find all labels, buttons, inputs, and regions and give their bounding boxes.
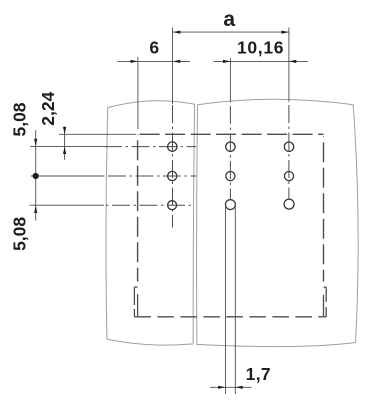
centerline column2 [229,58,231,101]
svg-text:6: 6 [149,38,159,58]
dimension 6: line [117,60,190,62]
notch bottom-left [134,287,137,317]
dimension 10,16: left arrow [223,60,230,63]
centerline column1 [172,28,174,105]
dimension 10,16: right arrow [289,60,296,63]
hole C3 [284,199,294,209]
dimension 1,7: line [210,386,251,388]
arrow down at top edge [63,127,66,134]
arrow up below row3 [34,206,37,213]
dashed body outline left edge [137,134,139,281]
hole C2 [284,172,293,181]
arrow down at row1 [34,139,37,146]
svg-text:5,08: 5,08 [9,102,29,136]
extension line for 6 (left) [137,57,139,129]
hole B2 [226,172,235,181]
hole B1 [226,142,235,151]
dimension 1,7: right arrow [235,386,242,389]
hole A2 [168,171,177,180]
extension line top edge (left) [59,133,136,135]
chain dot at row2 [33,173,39,179]
hole edge extension line left [225,205,227,394]
outline right block [197,99,359,346]
dimension 5,08 top / 5,08 bottom vertical line [35,130,37,220]
outline left block [106,101,195,345]
hole A1 [168,142,177,151]
svg-text:1,7: 1,7 [246,364,271,384]
dimension a: left arrow [173,31,180,34]
centerline column3 [288,28,290,103]
hole A3 [168,201,177,210]
centerline row1 [30,146,104,148]
dimension 6: right arrow [173,60,180,63]
svg-text:2,24: 2,24 [38,91,58,125]
dimension a: right arrow [282,31,289,34]
svg-text:5,08: 5,08 [9,217,29,251]
dimension a: line [173,31,289,33]
dimension 2,24 vertical line [64,127,66,160]
dimension 10,16: line [214,60,309,62]
arrow up at row1 [63,147,66,154]
centerline row2 [31,175,104,177]
dashed body outline right edge [323,136,325,281]
hole C1 [284,142,293,151]
notch bottom-right [324,287,327,317]
centerline row3 [30,204,104,206]
svg-text:a: a [223,8,235,31]
dashed body outline bottom edge [134,316,326,318]
hole edge extension line right [234,205,236,394]
dimension 6: left arrow [131,60,138,63]
dimension 1,7: left arrow [218,386,225,389]
svg-text:10,16: 10,16 [237,37,284,57]
dashed body outline top edge [138,133,324,135]
hole B3 [225,200,235,210]
